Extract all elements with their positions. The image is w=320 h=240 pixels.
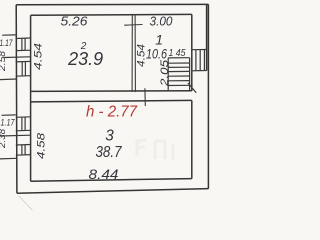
svg-text:10.6: 10.6	[146, 46, 167, 62]
extension line mid lower	[0, 134, 31, 137]
svg-text:1 45: 1 45	[169, 47, 186, 59]
window W1	[16, 37, 31, 40]
svg-text:1.17: 1.17	[1, 118, 16, 128]
wall top of rooms 1 and 2	[31, 13, 192, 16]
svg-text:23.9: 23.9	[67, 48, 103, 69]
svg-text:8.44: 8.44	[89, 166, 119, 182]
svg-text:2.58: 2.58	[0, 50, 8, 72]
staircase upper flight top edge	[192, 49, 207, 51]
wall room 3 bottom	[31, 179, 192, 182]
outer boundary top	[16, 3, 208, 5]
svg-text:5.26: 5.26	[61, 14, 88, 28]
wall left inner face	[30, 15, 32, 181]
left wall window group upper	[0, 35, 31, 80]
ghost bleed-through marks	[137, 140, 173, 160]
partition rooms 1-2 line b	[134, 15, 136, 92]
extension line w3 top	[2, 114, 16, 116]
svg-text:3.00: 3.00	[150, 14, 173, 28]
staircase lower flight left edge	[167, 58, 169, 91]
svg-text:1.17: 1.17	[0, 38, 13, 48]
left wall window group lower	[0, 115, 31, 159]
outer boundary right	[207, 4, 209, 188]
outer boundary left	[15, 5, 18, 194]
dimension tick mid wall	[144, 88, 146, 106]
extension line mid upper	[4, 56, 30, 59]
staircase lower flight right edge	[189, 58, 191, 91]
staircase upper flight bottom edge	[192, 70, 207, 72]
svg-text:4.58: 4.58	[36, 132, 48, 159]
wall right inner face	[206, 5, 208, 71]
pencil stray mark bottom left	[19, 196, 33, 211]
partition rooms 1-2 line a	[131, 15, 133, 92]
outer boundary bottom	[17, 189, 209, 194]
extension line w4 bottom	[0, 157, 16, 160]
wall mid bottom line (room 3 top)	[31, 100, 192, 102]
svg-text:4.54: 4.54	[136, 44, 148, 67]
svg-text:4.54: 4.54	[33, 43, 45, 70]
window W3	[16, 116, 31, 119]
wall room 3 right	[191, 100, 193, 178]
svg-text:2.05: 2.05	[159, 59, 171, 87]
height note h-2.77 red	[86, 104, 138, 121]
window W2	[16, 60, 31, 63]
svg-text:3: 3	[105, 127, 114, 144]
extension line w1 top	[2, 34, 15, 36]
window W4	[16, 144, 31, 147]
staircase diagonal cut mark	[188, 83, 196, 93]
wall mid top line	[31, 90, 192, 93]
staircase upper flight treads	[195, 50, 197, 71]
staircase treads	[168, 62, 189, 64]
wall stairwell left upper	[191, 14, 193, 91]
svg-text:h - 2.77: h - 2.77	[86, 104, 138, 121]
svg-text:2.38: 2.38	[0, 128, 8, 149]
dimension tick top partition	[124, 24, 142, 27]
svg-text:38.7: 38.7	[96, 144, 122, 161]
extension line w2 bottom	[0, 78, 16, 81]
staircase lower flight top edge	[168, 57, 189, 59]
